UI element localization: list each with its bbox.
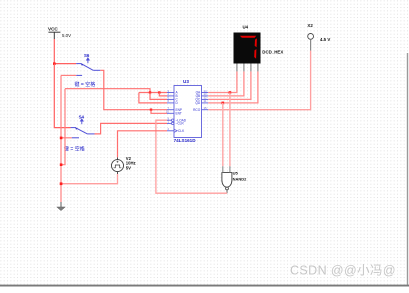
junction on ENP wire — [150, 109, 152, 111]
wire QA down to NAND input — [229, 93, 231, 167]
svg-text:U4: U4 — [243, 25, 249, 30]
junction QA NAND branch — [229, 91, 232, 94]
U3 CLK edge triangle — [174, 129, 177, 132]
power VCC symbol — [48, 32, 60, 39]
svg-text:ENT: ENT — [176, 112, 182, 116]
U5 input stems — [223, 166, 230, 172]
wire corner to pin D — [139, 93, 167, 103]
svg-text:10: 10 — [166, 110, 170, 114]
wire branch to pin B — [159, 93, 167, 96]
wire branch ENP to ENT — [151, 110, 167, 114]
display U4 body — [234, 33, 261, 64]
window bottom border — [0, 285, 409, 287]
svg-text:VCC: VCC — [48, 27, 58, 32]
S4 actuator tick — [81, 119, 84, 124]
wire QB to display pin2 — [208, 71, 244, 96]
svg-text:X2: X2 — [307, 23, 313, 28]
op IC U3 74LS161D body — [174, 86, 202, 138]
watermark CSDN — [290, 264, 397, 279]
junction at VCC branch — [53, 62, 56, 65]
V2 wave glyph — [114, 165, 122, 168]
U3 pin numbers right — [204, 89, 208, 110]
svg-text:5V: 5V — [126, 165, 131, 170]
svg-text:11: 11 — [204, 99, 207, 103]
X2 stem — [310, 39, 312, 50]
svg-text:S4: S4 — [79, 115, 85, 120]
U3 inner pin names left — [176, 91, 187, 133]
svg-text:U3: U3 — [183, 79, 189, 84]
svg-text:5.0V: 5.0V — [62, 33, 71, 38]
wire V2 bottom to ground rail — [61, 174, 118, 184]
wire QA to display pin1 — [208, 71, 237, 92]
wire pin A row — [139, 92, 167, 94]
wire junction to S6 common — [54, 63, 76, 65]
wire ABCD net left drop to ground rail — [61, 89, 65, 165]
display segment a (top) — [240, 36, 256, 38]
junction ground rail — [60, 182, 63, 185]
wire QC to display pin3 — [208, 71, 251, 99]
svg-text:DCD_HEX: DCD_HEX — [262, 49, 283, 54]
junction QD NAND branch — [222, 102, 225, 105]
S6 pivot nub — [81, 64, 83, 66]
display segment c (bottom right) — [254, 49, 256, 59]
wire QD to display pin4 — [208, 71, 258, 103]
window right border — [407, 53, 409, 285]
svg-text:~CLR: ~CLR — [176, 122, 185, 126]
wire S6 output to ENP — [100, 70, 167, 109]
junction A-row / W1 — [149, 91, 151, 93]
display segment b (top right) — [255, 38, 257, 47]
S4 pivot nub — [76, 128, 78, 130]
svg-text:NAND2: NAND2 — [233, 176, 248, 181]
wire branch to pin C — [150, 93, 167, 100]
svg-text:4.5 V: 4.5 V — [320, 37, 330, 42]
svg-text:CLK: CLK — [178, 129, 185, 133]
svg-text:15: 15 — [204, 106, 208, 110]
probe X2 — [308, 34, 314, 40]
junction ABCD-ground rail — [60, 163, 63, 166]
svg-text:RCO: RCO — [193, 108, 201, 112]
svg-text:键 = 空格: 键 = 空格 — [64, 146, 85, 153]
wire VCC down to S4 — [54, 64, 70, 128]
U3 ~LOAD bubble — [172, 119, 174, 121]
wire VCC down to junction — [53, 39, 55, 64]
V2 stems — [117, 157, 119, 174]
display pin stems — [237, 64, 258, 72]
S6 actuator tick — [87, 58, 90, 63]
svg-text:74LS161D: 74LS161D — [174, 138, 197, 143]
wire ABCD net horizontal — [65, 89, 150, 93]
svg-text:键 = 空格: 键 = 空格 — [75, 81, 96, 88]
U3 right pin stubs — [202, 93, 209, 110]
wire vertical ground net left rail — [60, 75, 62, 202]
wire V2 top to CLK — [118, 131, 168, 157]
switch S4 — [71, 128, 95, 138]
wire S4 output to ~CLR — [95, 123, 168, 133]
V2 plus sign — [117, 161, 119, 163]
svg-text:QD: QD — [195, 101, 200, 105]
NAND gate U5 body — [222, 173, 232, 188]
wire S6 throw2 to ground rail — [61, 74, 76, 76]
svg-text:CSDN @@小冯@: CSDN @@小冯@ — [290, 264, 396, 278]
junction B branch — [158, 91, 160, 93]
svg-text:S6: S6 — [84, 53, 90, 58]
wire RCO to probe X2 — [208, 51, 310, 110]
U3 ~CLR bubble — [172, 122, 174, 124]
U3 left pin stubs — [167, 93, 174, 131]
U3 inner pin names right — [193, 91, 201, 112]
U3 pin numbers left — [166, 89, 170, 131]
switch S6 — [76, 64, 100, 76]
clock source V2 — [112, 160, 124, 172]
junction S4 throw2 — [60, 137, 63, 140]
wire QD down to NAND input — [222, 103, 224, 166]
U5 output stem — [226, 190, 228, 193]
wire NAND output to ~LOAD — [156, 120, 227, 193]
svg-text:U5: U5 — [233, 171, 239, 176]
wire S4 throw2 to ground rail — [61, 137, 72, 139]
U5 output bubble — [226, 187, 229, 190]
ground symbol — [57, 202, 65, 211]
